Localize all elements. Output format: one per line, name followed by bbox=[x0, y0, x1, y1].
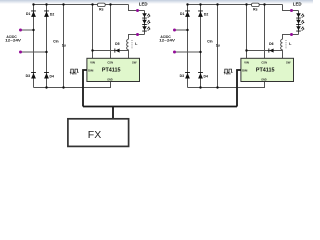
svg-text:D5: D5 bbox=[115, 42, 119, 46]
svg-text:FX: FX bbox=[88, 129, 101, 141]
svg-text:D6: D6 bbox=[269, 42, 273, 46]
